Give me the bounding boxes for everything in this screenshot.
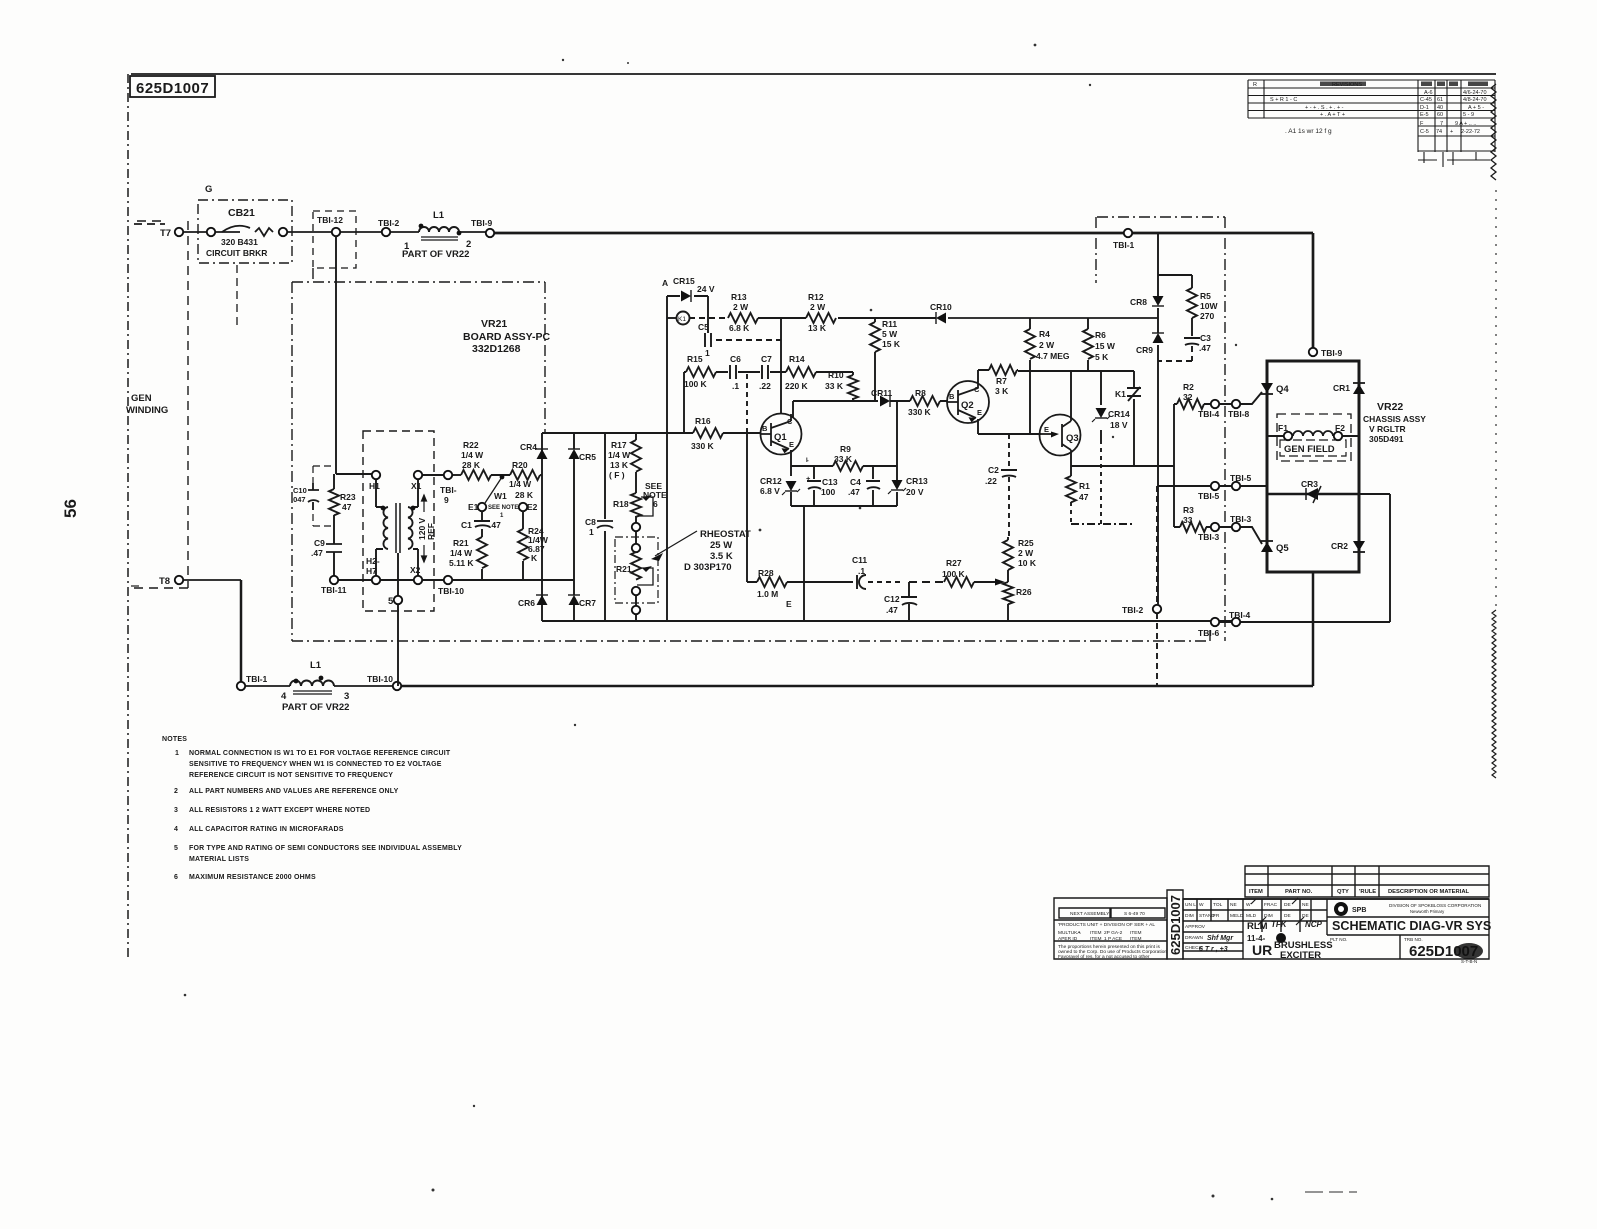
svg-text:H2-: H2-	[366, 556, 380, 566]
svg-text:47: 47	[342, 502, 352, 512]
resistor R20	[510, 470, 540, 480]
svg-text:1: 1	[589, 527, 594, 537]
svg-text:10 K: 10 K	[1018, 558, 1037, 568]
capacitor C3	[1184, 338, 1200, 345]
main rail y318 R13 to R12	[758, 317, 806, 319]
svg-text:6.8 K: 6.8 K	[729, 323, 750, 333]
VR22 box	[1267, 361, 1359, 572]
C5 dashed link to Q1 collector column	[716, 339, 781, 341]
diode CR15	[681, 290, 691, 302]
svg-text:5: 5	[174, 845, 178, 852]
svg-text:1/4 W: 1/4 W	[450, 548, 473, 558]
svg-text:G: G	[205, 184, 212, 195]
svg-text:TBI-9: TBI-9	[471, 218, 493, 228]
resistor R4	[1025, 329, 1035, 359]
diode CR2	[1353, 541, 1365, 551]
svg-text:R8: R8	[915, 388, 926, 398]
capacitor C13	[807, 481, 821, 489]
diode CR11	[880, 395, 890, 407]
R15 left drop to R16 rail	[683, 372, 685, 433]
circuit breaker CB21 zigzag element	[255, 228, 273, 236]
svg-text:C6: C6	[730, 354, 741, 364]
wire corner down to bottom rail	[240, 580, 243, 686]
svg-text:H7: H7	[366, 566, 377, 576]
C10 dashed enclosure	[313, 466, 334, 526]
left small block text	[1058, 911, 1167, 960]
svg-text:ITEM: ITEM	[1090, 930, 1101, 936]
svg-text:R23: R23	[340, 492, 356, 502]
svg-text:UR: UR	[1252, 942, 1272, 958]
svg-text:R15: R15	[687, 354, 703, 364]
svg-text:R5: R5	[1200, 291, 1211, 301]
svg-text:ALL CAPACITOR RATING IN MICROF: ALL CAPACITOR RATING IN MICROFARADS	[189, 826, 344, 833]
svg-text:15 W: 15 W	[1095, 341, 1116, 351]
svg-text:V RGLTR: V RGLTR	[1369, 424, 1406, 434]
resistor R6	[1083, 329, 1093, 359]
R1 bottom dashes	[1070, 502, 1072, 523]
svg-text:1/4 W: 1/4 W	[608, 450, 631, 460]
VR21 board dash-dot bottom edge	[292, 628, 1210, 641]
svg-text:6: 6	[653, 499, 658, 509]
relay contact K1	[1127, 387, 1141, 401]
sheet top border	[131, 73, 1496, 75]
diode CR7	[568, 595, 580, 605]
svg-text:TBI-10: TBI-10	[438, 586, 464, 596]
svg-text:TBI-2: TBI-2	[1122, 605, 1144, 615]
wire TBI-12 down to H1 node	[335, 236, 337, 474]
svg-text:E: E	[1044, 425, 1049, 434]
svg-text:REVISIONS: REVISIONS	[1332, 82, 1362, 88]
svg-text:CR7: CR7	[579, 598, 596, 608]
transformer polarity dot primary	[381, 506, 386, 511]
C12 column	[908, 582, 910, 621]
svg-text:R28: R28	[758, 568, 774, 578]
svg-text:E: E	[977, 408, 982, 417]
svg-text:MLD: MLD	[1246, 913, 1257, 919]
svg-text:4/6-24-70: 4/6-24-70	[1463, 90, 1487, 96]
svg-text:R25: R25	[1018, 538, 1034, 548]
relay coil K1	[677, 312, 690, 325]
svg-text:RLM: RLM	[1247, 921, 1268, 932]
wire node to H1	[336, 473, 372, 475]
svg-text:PART OF VR22: PART OF VR22	[282, 702, 349, 713]
svg-text:32: 32	[1183, 392, 1193, 402]
resistor R23 column top lead	[333, 474, 335, 489]
long wire TBI-9 across top to right vertical	[494, 232, 1313, 235]
svg-text:15 K: 15 K	[882, 339, 901, 349]
svg-text:D 303P170: D 303P170	[684, 562, 732, 573]
svg-text:D-1: D-1	[1420, 105, 1429, 111]
CR14 column	[1100, 371, 1102, 440]
svg-text:TFK: TFK	[1271, 920, 1288, 929]
svg-text:2 W: 2 W	[733, 302, 749, 312]
terminal H1	[372, 471, 380, 479]
title underline	[1183, 898, 1489, 900]
TBI-8 to Q4 gate	[1240, 392, 1262, 404]
smudge near T8	[131, 585, 139, 587]
svg-text:.1: .1	[732, 381, 739, 391]
terminal T8	[175, 576, 183, 584]
CR8 column solid to TBI-2	[1157, 486, 1159, 605]
junction dot L1 pin2	[457, 231, 462, 236]
svg-text:2 W: 2 W	[1039, 340, 1055, 350]
svg-text:74: 74	[1436, 129, 1442, 135]
svg-text:CR12: CR12	[760, 476, 782, 486]
Q2 collector riser	[977, 370, 979, 382]
svg-text:MAXIMUM RESISTANCE 2000 OHMS: MAXIMUM RESISTANCE 2000 OHMS	[189, 874, 316, 881]
rail y372 R7 to K1 column	[1018, 370, 1134, 372]
svg-text:R22: R22	[463, 440, 479, 450]
svg-text:H1: H1	[369, 481, 380, 491]
svg-text:SEE NOTE: SEE NOTE	[488, 505, 518, 511]
svg-text:X1: X1	[411, 481, 422, 491]
svg-text:CR6: CR6	[518, 598, 535, 608]
rail CR10 to right column	[948, 317, 1158, 319]
svg-text:625D1007: 625D1007	[136, 80, 209, 97]
svg-text:20 V: 20 V	[906, 487, 924, 497]
wire CB21 internal and out to TBI-12	[214, 231, 331, 233]
rheostat R21 dash-dot enclosure	[615, 537, 658, 603]
svg-text:B: B	[762, 424, 768, 433]
svg-text:2 W: 2 W	[810, 302, 826, 312]
svg-text:W1: W1	[494, 491, 507, 501]
wire TBI-9 to R22	[452, 474, 461, 476]
zener CR12	[785, 481, 797, 491]
wire H2-H7 to X2 row	[380, 579, 414, 581]
svg-text:1 P ACE: 1 P ACE	[1104, 936, 1122, 942]
svg-text:Q2: Q2	[961, 400, 974, 411]
svg-text:FRAC: FRAC	[1264, 902, 1278, 908]
svg-text:C10: C10	[293, 486, 307, 495]
svg-text:R: R	[1253, 82, 1257, 88]
gen field row	[1267, 435, 1359, 437]
svg-text:CR5: CR5	[579, 452, 596, 462]
C2 dashed column	[1008, 434, 1010, 537]
svg-text:.22: .22	[985, 476, 997, 486]
svg-text:.47: .47	[489, 520, 501, 530]
title block outer lines	[1054, 898, 1167, 959]
bridge second column CR5/CR7	[573, 433, 575, 621]
Q1 emitter drop	[790, 450, 792, 476]
svg-text:E: E	[789, 440, 794, 449]
svg-text:.47: .47	[848, 487, 860, 497]
VR21 board dash-dot right edge	[1224, 217, 1226, 641]
Q1 collector rail y401	[793, 400, 897, 402]
svg-text:RHEOSTAT: RHEOSTAT	[700, 529, 751, 540]
svg-text:CHASSIS ASSY: CHASSIS ASSY	[1363, 414, 1426, 424]
transistor Q1	[760, 414, 802, 455]
resistor R23	[329, 489, 339, 515]
stray scan dots	[184, 44, 1274, 1201]
wire TBI-10 row right to bridge	[452, 579, 574, 581]
svg-text:100: 100	[821, 487, 835, 497]
C13 leads	[813, 466, 815, 506]
svg-text:.47: .47	[1199, 343, 1211, 353]
C12 to R27 wire	[909, 581, 944, 583]
tap 5 wire down to bottom rail	[397, 604, 399, 686]
svg-text:C12: C12	[884, 594, 900, 604]
svg-text:+: +	[1078, 931, 1081, 936]
svg-text:330 K: 330 K	[691, 441, 715, 451]
svg-text:C13: C13	[822, 477, 838, 487]
TBI-2 dashed drop	[1156, 486, 1158, 686]
svg-text:QTY: QTY	[1337, 889, 1349, 895]
VR21 board dash-dot left edge	[291, 282, 293, 641]
wire L1 to TBI-9	[459, 231, 486, 233]
diode CR10	[936, 312, 946, 324]
R2 row	[1174, 403, 1232, 405]
terminal TBI-4 bottom	[1232, 618, 1240, 626]
rail R12 to CR10	[838, 317, 936, 319]
transformer H1 lead	[376, 479, 383, 507]
terminal TBI-9 on VR22	[1309, 348, 1317, 356]
svg-text:C4: C4	[850, 477, 861, 487]
transistor Q3	[1040, 415, 1081, 456]
120 V REF arrows and label	[422, 495, 427, 562]
svg-text:4: 4	[174, 826, 178, 833]
diode CR6	[536, 595, 548, 605]
R8 leads	[897, 400, 947, 402]
R5 to C3	[1191, 318, 1193, 336]
right column	[666, 433, 668, 621]
svg-text:TBI-6: TBI-6	[1198, 628, 1220, 638]
svg-text:DE: DE	[1284, 913, 1291, 919]
svg-text:DIVISION OF SPOKBLOSS CORPORAT: DIVISION OF SPOKBLOSS CORPORATION	[1389, 903, 1481, 908]
C8 column	[604, 433, 606, 621]
circuit breaker CB21 contact arc	[222, 226, 250, 232]
C11 to C12 dashes	[868, 581, 901, 583]
svg-text:6: 6	[174, 874, 178, 881]
junction dot L1 bottom pin3	[319, 676, 324, 681]
K1 relay coil leads	[667, 317, 677, 319]
svg-text:7: 7	[1440, 121, 1443, 127]
svg-text:+: +	[1450, 129, 1453, 135]
terminal H2-H7	[372, 576, 380, 584]
transformer T21 secondary winding	[408, 507, 413, 549]
wire TBI-2 to L1	[390, 231, 419, 233]
svg-text:5 W: 5 W	[882, 329, 898, 339]
sheet right sawtooth edge	[1491, 84, 1496, 180]
company logo	[1334, 902, 1348, 916]
svg-text:R17: R17	[611, 440, 627, 450]
C5 link down to Q1 top	[780, 340, 782, 414]
R27 arrow lead	[974, 581, 997, 583]
gen field terminal F2	[1334, 432, 1342, 440]
resistor R10	[848, 375, 858, 399]
svg-text:CR4: CR4	[520, 442, 537, 452]
inductor L1 bottom coil	[290, 681, 334, 686]
svg-text:APPROV: APPROV	[1185, 924, 1206, 930]
resistor R24	[518, 511, 528, 580]
bottom drop from inner rail to ground rail	[803, 506, 805, 621]
svg-text:3 K: 3 K	[995, 386, 1009, 396]
bottom rail TBI-1 to L1	[241, 685, 290, 687]
svg-text:T8: T8	[159, 576, 170, 587]
signature block	[1183, 899, 1489, 959]
drawing number box top-left	[130, 76, 215, 97]
resistor R26	[1003, 582, 1013, 604]
terminal TBI-5 left	[1211, 482, 1219, 490]
svg-text:Q3: Q3	[1066, 433, 1079, 444]
svg-text:TBI-: TBI-	[440, 485, 457, 495]
svg-text:ALL PART NUMBERS AND VALUES AR: ALL PART NUMBERS AND VALUES ARE REFERENC…	[189, 788, 399, 795]
wire T7 to CB21	[183, 231, 209, 233]
rail y466 R1 to R2R3 link	[1071, 465, 1174, 467]
check slashes	[1251, 898, 1304, 925]
ground rail y621	[667, 620, 1236, 622]
svg-text:R3: R3	[1183, 505, 1194, 515]
svg-text:K1: K1	[678, 316, 686, 323]
svg-text:SPB: SPB	[1352, 907, 1366, 914]
svg-text:C5: C5	[698, 322, 709, 332]
svg-text:10W: 10W	[1200, 301, 1218, 311]
svg-text:1/4 W: 1/4 W	[461, 450, 484, 460]
W1 tap diagonal	[485, 477, 502, 503]
svg-text:18 V: 18 V	[1110, 420, 1128, 430]
svg-text:6 T r , +3: 6 T r , +3	[1199, 946, 1228, 953]
svg-text:A + 5 -: A + 5 -	[1468, 105, 1484, 111]
svg-text:NOTES: NOTES	[162, 736, 187, 743]
capacitor C6	[730, 365, 736, 379]
svg-text:C11: C11	[852, 555, 867, 565]
signature names	[1199, 920, 1323, 953]
svg-text:VR22: VR22	[1377, 401, 1403, 413]
svg-text:40: 40	[1437, 105, 1443, 111]
svg-text:ITEM: ITEM	[1090, 936, 1101, 942]
svg-text:R18: R18	[613, 499, 629, 509]
terminal TBI-3 right	[1232, 523, 1240, 531]
bridge bottom rail	[542, 620, 667, 622]
svg-text:NE: NE	[1302, 902, 1309, 908]
svg-text:SENSITIVE TO FREQUENCY WHEN W: SENSITIVE TO FREQUENCY WHEN W1 IS CONNEC…	[189, 761, 442, 768]
R28 row	[747, 581, 853, 583]
gen winding dashed box	[132, 221, 188, 588]
sheet left dash-dot border	[127, 74, 129, 958]
svg-text:625D1007: 625D1007	[1168, 895, 1183, 955]
VR21 board dash-dot top-left segment	[292, 282, 545, 433]
svg-text:.47: .47	[311, 548, 323, 558]
terminal E2	[519, 503, 527, 511]
svg-text:R26: R26	[1016, 587, 1032, 597]
R11 column	[874, 318, 876, 401]
resistor R22	[461, 470, 491, 480]
svg-text:R6: R6	[1095, 330, 1106, 340]
capacitor C9 column leads	[333, 515, 335, 576]
transformer H2 lead	[376, 549, 383, 576]
resistor R14	[786, 367, 816, 377]
svg-text:Newworth Primary: Newworth Primary	[1410, 909, 1445, 914]
right vertical down to VR22 TBI-9	[1312, 233, 1315, 348]
capacitor C1	[474, 511, 490, 537]
svg-text:61: 61	[1437, 97, 1443, 103]
terminal TBI-8	[1232, 400, 1240, 408]
svg-text:R20: R20	[512, 460, 528, 470]
svg-text:MELD: MELD	[1230, 913, 1244, 919]
T21 dashed enclosure	[363, 431, 434, 611]
gen field label box	[1280, 440, 1346, 456]
svg-text:ITEM: ITEM	[1130, 936, 1141, 942]
svg-text:C3: C3	[1200, 333, 1211, 343]
svg-text:B: B	[949, 392, 955, 401]
svg-text:WINDING: WINDING	[126, 405, 168, 416]
zener CR13	[891, 480, 903, 490]
svg-text:'PRODUCTS UNIT + DIVISION OF S: 'PRODUCTS UNIT + DIVISION OF SER + AL	[1058, 922, 1155, 928]
svg-text:TBI-5: TBI-5	[1198, 491, 1220, 501]
svg-text:CR11: CR11	[871, 388, 893, 398]
capacitor C4	[866, 481, 880, 489]
CR15 to C5 vertical	[707, 296, 709, 333]
capacitor C11	[857, 575, 866, 589]
transformer X1 lead	[413, 479, 418, 507]
resistor R17	[631, 440, 641, 472]
svg-text:E-5: E-5	[1420, 112, 1429, 118]
R5 branch jog	[1158, 275, 1192, 288]
svg-text:R21: R21	[453, 538, 469, 548]
K1 to R13 wire dashed	[689, 317, 728, 319]
svg-text:220 K: 220 K	[785, 381, 809, 391]
terminal X2	[414, 576, 422, 584]
svg-text:Shf Mgr: Shf Mgr	[1207, 935, 1234, 942]
svg-text:TBI-1: TBI-1	[246, 674, 268, 684]
svg-text:X2: X2	[410, 565, 421, 575]
company row	[1327, 916, 1489, 918]
capacitor C7	[762, 365, 768, 379]
svg-text:.047: .047	[291, 495, 306, 504]
svg-text:Favoravel of res. for a not ac: Favoravel of res. for a not accused to o…	[1058, 954, 1150, 960]
svg-text:C7: C7	[761, 354, 772, 364]
svg-text:R7: R7	[996, 376, 1007, 386]
svg-text:C-5: C-5	[1420, 129, 1429, 135]
gen field coil	[1293, 431, 1333, 436]
signature grid small text	[1185, 902, 1309, 951]
resistor R2	[1177, 399, 1204, 409]
base node drop to R28	[746, 433, 748, 582]
diode CR1	[1353, 384, 1365, 394]
revision table top right	[1248, 80, 1495, 167]
svg-text:E2: E2	[527, 502, 538, 512]
svg-text:C: C	[974, 385, 980, 394]
svg-text:100 K: 100 K	[684, 379, 708, 389]
svg-text:ALL RESISTORS 1 2 WATT EXCEPT: ALL RESISTORS 1 2 WATT EXCEPT WHERE NOTE…	[189, 807, 370, 814]
node A lead and CR15 wire	[667, 295, 708, 297]
wire TBI-11 to H2-H7	[338, 579, 372, 581]
svg-text:CB21: CB21	[228, 207, 255, 219]
svg-text:TBI-12: TBI-12	[317, 215, 343, 225]
VR22 bottom feed vertical	[1312, 572, 1315, 686]
resistor R1	[1066, 476, 1076, 502]
svg-text:E: E	[786, 599, 792, 609]
svg-text:CR13: CR13	[906, 476, 928, 486]
svg-text:NCP: NCP	[1305, 920, 1323, 929]
svg-text:2-22-72: 2-22-72	[1461, 129, 1480, 135]
svg-text:TBI-1: TBI-1	[1113, 240, 1135, 250]
vertical number cell	[1167, 890, 1183, 959]
Q1 collector riser	[792, 401, 794, 418]
resistor R25	[1003, 540, 1013, 570]
svg-text:3: 3	[174, 807, 178, 814]
svg-text:13 K: 13 K	[610, 460, 629, 470]
dash-dot corner near R1	[1071, 523, 1134, 525]
SCR Q4	[1261, 383, 1273, 393]
svg-text:R2: R2	[1183, 382, 1194, 392]
svg-text:GEN: GEN	[131, 393, 152, 404]
svg-text:5.11 K: 5.11 K	[449, 558, 474, 568]
svg-text:R1: R1	[1079, 481, 1090, 491]
svg-text:305D491: 305D491	[1369, 434, 1404, 444]
R25 column	[1007, 537, 1009, 582]
R15 C6 C7 R14 row	[684, 371, 853, 373]
svg-text:CR8: CR8	[1130, 297, 1147, 307]
